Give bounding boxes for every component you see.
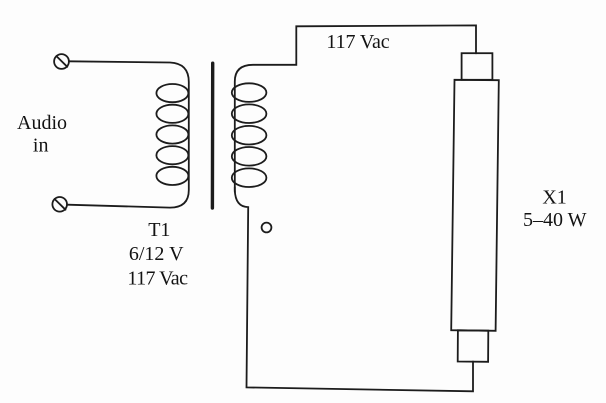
secondary winding loop 3 xyxy=(232,126,267,145)
svg-text:in: in xyxy=(33,135,49,157)
wire (secondary bottom, down left side and bottom rail to lamp bottom) xyxy=(235,187,473,391)
primary winding loop 4 xyxy=(156,146,188,164)
wire (top terminal to primary) + primary winding spine of T1 xyxy=(67,61,189,207)
terminal (screw, audio in bottom) xyxy=(52,197,67,212)
lamp X1 bottom cap xyxy=(458,330,489,362)
svg-text:5–40 W: 5–40 W xyxy=(523,209,587,231)
secondary winding loop 5 xyxy=(232,168,267,187)
primary winding loop 1 xyxy=(156,84,188,102)
secondary winding loop 1 xyxy=(232,83,267,102)
secondary winding loop 4 xyxy=(232,147,267,166)
svg-text:T1: T1 xyxy=(148,219,170,241)
primary winding loop 2 xyxy=(156,105,188,123)
primary winding loop 5 xyxy=(156,167,188,185)
tap terminal (open circle on secondary) xyxy=(262,223,272,233)
svg-text:6/12 V: 6/12 V xyxy=(129,243,184,265)
secondary winding loop 2 xyxy=(232,104,267,123)
transformer core of T1 xyxy=(211,63,215,208)
lamp X1 tube body xyxy=(451,80,499,331)
svg-text:117 Vac: 117 Vac xyxy=(127,267,188,289)
svg-text:X1: X1 xyxy=(542,187,566,209)
lamp X1 top cap xyxy=(462,53,493,80)
wire (secondary top to 117 Vac rail to lamp top) + secondary spine xyxy=(235,25,476,192)
svg-text:Audio: Audio xyxy=(17,112,67,134)
label Audio in xyxy=(17,112,67,157)
primary winding loop 3 xyxy=(156,125,188,143)
svg-text:117 Vac: 117 Vac xyxy=(326,31,389,53)
terminal (screw, audio in top) xyxy=(54,54,69,69)
